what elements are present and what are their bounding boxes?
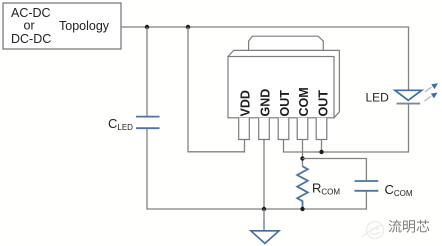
wire: input top rail from box to LED anode column [121,27,409,90]
wire: VDD branch (rail down, right to pin 1) [188,27,245,152]
wire: bottom rail [147,208,366,210]
wire: pin 2 GND down to bottom rail [263,140,265,210]
svg-text:CCOM: CCOM [385,182,413,198]
svg-text:OUT: OUT [278,90,292,117]
node: junction input rail / CLED [145,25,149,29]
wire: CCOM bottom lead to bottom rail [365,191,368,209]
wire: pin 5 OUT down to OUT rail [321,140,323,153]
svg-text:Topology: Topology [59,19,110,33]
node: COM junction [300,156,304,160]
pin 2 (GND) [259,118,270,140]
capacitor CLED [136,117,160,129]
IC U1 package tab [249,36,324,50]
LED light arrow 2 [424,93,437,102]
pin 1 (VDD) [239,118,250,140]
watermark text 流明芯 [389,220,430,233]
svg-text:VDD: VDD [239,90,253,116]
wire: ground stub [263,209,265,221]
watermark logo icon [362,222,384,239]
svg-text:LED: LED [366,91,390,105]
node: junction RCOM / bottom rail [300,207,304,211]
ground [251,231,279,244]
svg-text:DC-DC: DC-DC [11,32,51,46]
LED light arrow 1 [425,83,438,92]
svg-text:OUT: OUT [317,90,331,117]
wire: COM rail to CCOM top [303,159,367,181]
topology box [3,3,121,49]
wire: CLED top lead [146,27,148,116]
svg-text:COM: COM [297,87,311,116]
capacitor CCOM [355,181,379,191]
resistor RCOM [297,166,308,209]
pin 5 (OUT) [316,118,327,140]
svg-text:RCOM: RCOM [312,181,340,197]
svg-text:GND: GND [259,89,273,117]
svg-text:or: or [24,18,35,32]
wire: pin 4 COM down to COM node [302,140,304,167]
wire: CLED bottom lead down to bottom rail [146,129,149,209]
pin 3 (OUT) [278,118,289,140]
node: junction input rail / VDD branch [186,25,190,29]
pin 4 (COM) [297,118,308,140]
LED D1 [395,90,422,103]
IC U1 package body (3D: top face, right face, front face) [228,50,339,117]
node: junction GND / bottom rail [262,207,266,211]
wire: pin 3 OUT down and right to LED cathode column [284,104,409,152]
node: junction pin5 / OUT rail [319,150,323,154]
svg-text:CLED: CLED [108,116,133,132]
